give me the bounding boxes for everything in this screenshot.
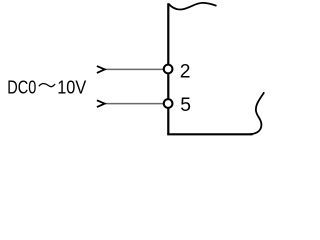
break symbol top wave [168,3,216,10]
wire vertical supply line [167,3,169,134]
svg-text:DC0: DC0 [7,76,36,97]
svg-text:2: 2 [180,61,191,82]
wire input to terminal 5 [104,103,163,105]
terminal 2 [164,65,173,74]
wire input to terminal 2 [104,68,163,70]
wire bottom horizontal line [167,133,252,135]
svg-text:10V: 10V [57,76,87,97]
terminal 5 [164,99,173,108]
break symbol bottom right squiggle [251,92,265,134]
arrow input 2 [97,66,105,73]
label tilde wave dash [39,84,55,87]
svg-text:5: 5 [180,95,191,116]
arrow input 5 [97,100,105,107]
